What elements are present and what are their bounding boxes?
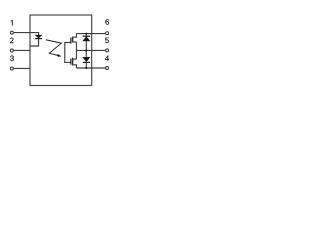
pin 5 label: [105, 38, 109, 43]
pin 6 label: [105, 19, 109, 24]
middle rail wire to pin 5: [76, 49, 105, 51]
junction dot middle rail: [85, 49, 87, 51]
wire LED cathode to box edge (pin 2 net): [30, 39, 39, 46]
LED D1 triangle (pointing down): [35, 35, 42, 38]
body diode D2 anode wire: [85, 41, 87, 50]
junction dot bottom rail: [85, 67, 87, 69]
MOSFET Q2 drain stub: [73, 65, 77, 68]
body diode D2 cathode bar: [83, 35, 90, 37]
wire pin3 stub: [14, 67, 30, 69]
body diode D3 cathode wire: [85, 63, 87, 68]
light arrowhead: [57, 54, 61, 57]
pin 2 label: [10, 38, 14, 43]
pin 4 terminal circle: [106, 67, 109, 70]
gate bus bracket: [65, 43, 71, 63]
MOSFET Q2 gate bar: [70, 59, 72, 65]
junction dot top rail: [85, 33, 87, 35]
pin 2 terminal circle: [10, 49, 13, 52]
bottom rail wire to pin 4: [76, 67, 105, 69]
pin 3 label: [10, 56, 14, 61]
body diode D3 cathode bar: [83, 61, 90, 63]
light coupling zigzag arrow: [46, 40, 62, 56]
MOSFET Q1 drain stub: [73, 34, 77, 38]
MOSFET Q1 gate bar: [70, 38, 72, 44]
pin 6 terminal circle: [106, 32, 109, 35]
pin 1 terminal circle: [10, 31, 13, 34]
common source link wire: [75, 42, 77, 59]
wire pin1 to LED anode: [14, 33, 39, 35]
MOSFET Q1 channel bar: [72, 37, 74, 43]
pin 4 label: [105, 56, 109, 61]
MOSFET Q2 source stub: [73, 58, 77, 60]
MOSFET Q2 channel bar: [72, 58, 74, 66]
body diode D3 triangle (pointing down): [83, 57, 90, 62]
body diode D2 triangle (pointing up): [83, 37, 90, 41]
MOSFET Q1 source stub: [73, 41, 77, 43]
package outline box: [30, 15, 92, 86]
pin 5 terminal circle: [106, 49, 109, 52]
pin 3 terminal circle: [10, 67, 13, 70]
pin 1 label: [11, 20, 13, 25]
wire pin2 stub: [14, 49, 30, 51]
LED D1 cathode bar: [35, 38, 42, 40]
top rail wire to pin 6: [76, 33, 105, 35]
body diode D3 anode wire: [85, 50, 87, 57]
body diode D2 cathode wire: [85, 34, 87, 36]
